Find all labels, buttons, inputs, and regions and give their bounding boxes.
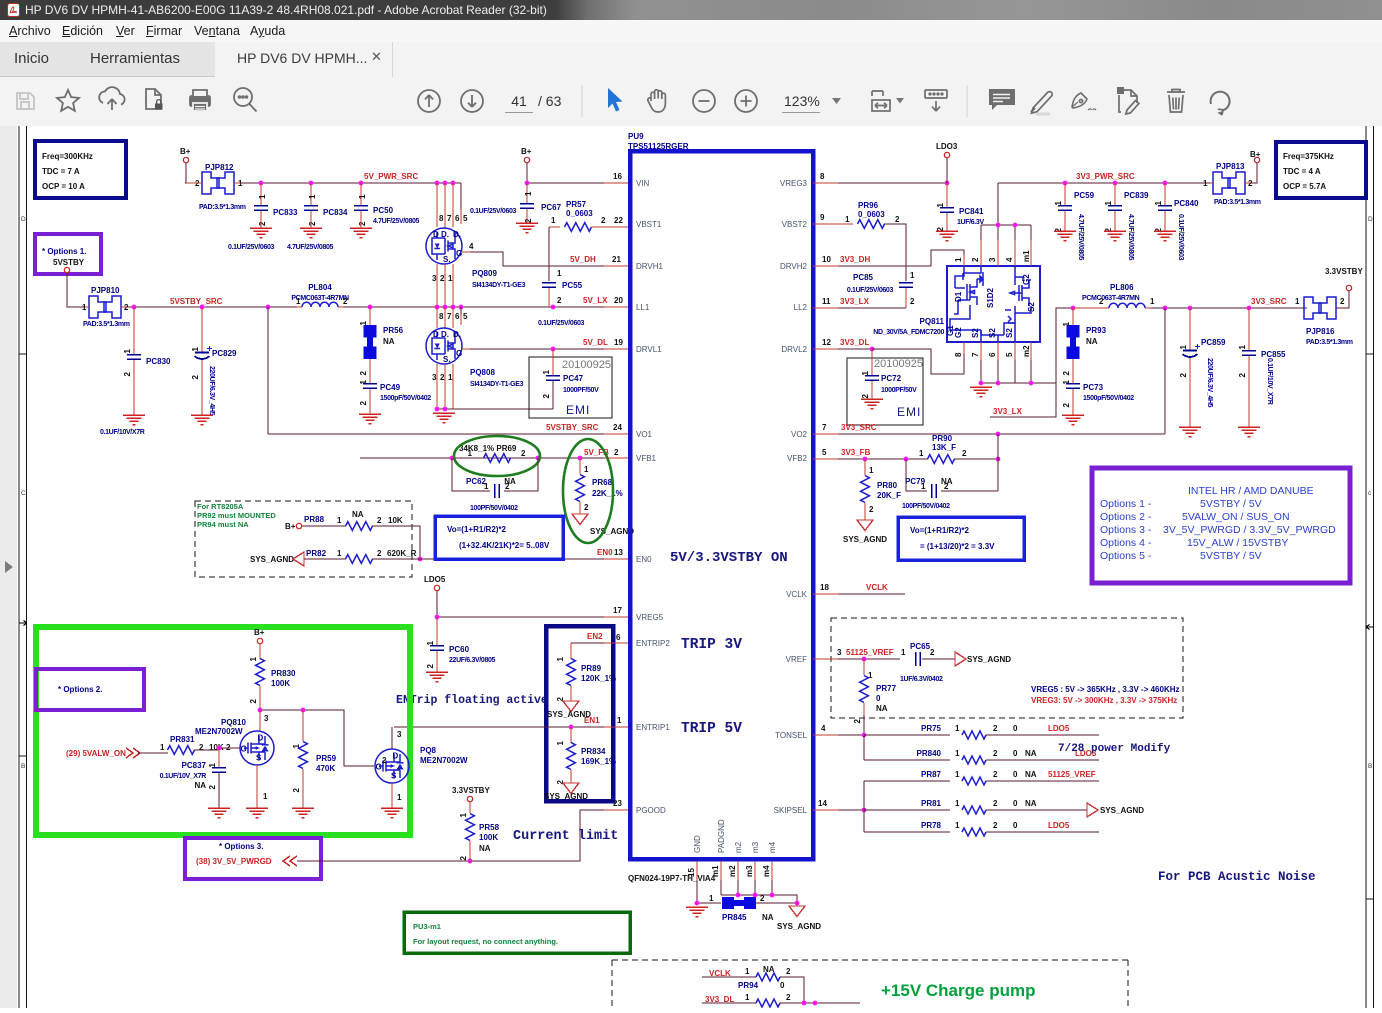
svg-text:5: 5	[463, 312, 468, 321]
svg-text:LL1: LL1	[636, 303, 650, 312]
svg-text:PL806: PL806	[1110, 283, 1134, 292]
note box PU3-m1	[404, 912, 630, 953]
svg-text:169K_1%: 169K_1%	[581, 757, 616, 766]
svg-text:DRVH1: DRVH1	[636, 262, 664, 271]
green ellipse around PR69	[454, 436, 540, 476]
svg-text:2: 2	[861, 393, 870, 398]
svg-text:1: 1	[359, 320, 368, 325]
svg-text:PC841: PC841	[959, 207, 984, 216]
jumper PJP810	[89, 296, 121, 318]
svg-text:Options 1 -: Options 1 -	[1100, 498, 1152, 510]
svg-text:S2: S2	[988, 328, 997, 338]
wire VREG3 to LDO3	[813, 182, 838, 184]
capacitor PC62 loop	[452, 458, 538, 491]
left panel strip	[0, 126, 17, 1008]
svg-text:2: 2	[542, 393, 551, 398]
svg-text:PQ811: PQ811	[920, 317, 945, 326]
capacitor PC49	[363, 384, 377, 388]
svg-text:1: 1	[845, 215, 850, 224]
svg-text:1: 1	[919, 449, 924, 458]
svg-text:TONSEL: TONSEL	[775, 731, 807, 740]
svg-text:4.7UF/25V/0805: 4.7UF/25V/0805	[287, 244, 334, 251]
wire PQ808 source rail	[437, 408, 553, 410]
svg-text:PR88: PR88	[304, 515, 325, 524]
jumper PJP816	[1304, 297, 1336, 319]
svg-text:1: 1	[910, 271, 915, 280]
svg-text:51125_VREF: 51125_VREF	[846, 648, 894, 657]
svg-text:1: 1	[901, 648, 906, 657]
capacitor PC79 loop	[906, 459, 998, 491]
capacitor PC830	[133, 307, 135, 354]
svg-text:3V3_PWR_SRC: 3V3_PWR_SRC	[1076, 172, 1135, 181]
svg-text:1: 1	[936, 202, 945, 207]
resistor PR830	[259, 644, 261, 659]
svg-text:PR57: PR57	[566, 200, 587, 209]
svg-text:PC49: PC49	[380, 383, 401, 392]
svg-text:PAD:3.5*1.3mm: PAD:3.5*1.3mm	[1306, 339, 1353, 346]
svg-text:3.3VSTBY: 3.3VSTBY	[452, 786, 490, 795]
capacitor PC67	[526, 183, 528, 203]
capacitor PC47	[552, 349, 554, 375]
svg-text:3V3_LX: 3V3_LX	[993, 407, 1023, 416]
svg-text:0.1UF/25V/0603: 0.1UF/25V/0603	[847, 287, 894, 294]
svg-text:0: 0	[1013, 724, 1018, 733]
ground PC859	[1179, 427, 1201, 437]
svg-text:m4: m4	[762, 865, 771, 877]
wire ENTRIP1 EN1	[394, 726, 604, 728]
svg-text:2: 2	[601, 216, 606, 225]
svg-text:16: 16	[613, 172, 622, 181]
svg-text:TPS51125RGER: TPS51125RGER	[628, 142, 689, 151]
svg-text:B+: B+	[521, 147, 532, 156]
svg-text:VO1: VO1	[636, 430, 653, 439]
transistor PQ808	[426, 328, 462, 364]
svg-text:0: 0	[1013, 770, 1018, 779]
svg-text:1: 1	[551, 216, 556, 225]
transistor PQ809	[426, 228, 462, 264]
svg-text:1: 1	[556, 740, 565, 745]
capacitor PC73	[1066, 384, 1080, 388]
svg-text:TRIP 5V: TRIP 5V	[681, 721, 742, 737]
wire PR830 node to PQ8 gate	[260, 710, 374, 766]
resistor PR81	[864, 809, 950, 811]
svg-text:PC59: PC59	[1074, 191, 1095, 200]
resistor PR78	[864, 831, 950, 833]
capacitor PC839	[1114, 183, 1116, 205]
svg-text:20K_F: 20K_F	[877, 491, 901, 500]
wire VO1 riser	[267, 307, 269, 434]
svg-text:22: 22	[614, 216, 623, 225]
svg-text:470K: 470K	[316, 764, 335, 773]
svg-text:G2: G2	[954, 327, 963, 338]
svg-text:10K: 10K	[388, 516, 403, 525]
ground PC834	[300, 228, 322, 238]
svg-text:9: 9	[820, 213, 825, 222]
svg-text:5: 5	[463, 214, 468, 223]
wire VBST2 to PC85	[884, 224, 906, 281]
svg-text:m2: m2	[734, 841, 743, 853]
svg-text:PC67: PC67	[541, 203, 562, 212]
svg-text:4: 4	[821, 724, 826, 733]
svg-text:VFB2: VFB2	[787, 454, 808, 463]
wire DRVL2 3V3_DL	[813, 348, 838, 350]
svg-text:0_0603: 0_0603	[858, 210, 885, 219]
svg-text:PR840: PR840	[917, 749, 942, 758]
capacitor PC60	[436, 617, 438, 645]
svg-text:1: 1	[296, 297, 301, 306]
svg-text:SYS_AGND: SYS_AGND	[590, 527, 634, 536]
IC bottom pin wires	[697, 861, 772, 880]
svg-text:PC72: PC72	[881, 374, 902, 383]
svg-text:+15V Charge pump: +15V Charge pump	[881, 981, 1035, 1000]
svg-text:PR56: PR56	[383, 326, 404, 335]
svg-text:2: 2	[426, 663, 435, 668]
PQ811 bottom pins	[964, 342, 1031, 360]
svg-text:220UF/6.3V_4H5: 220UF/6.3V_4H5	[208, 366, 215, 416]
svg-text:1: 1	[709, 894, 714, 903]
svg-text:PJP816: PJP816	[1306, 327, 1335, 336]
svg-text:2: 2	[760, 894, 765, 903]
svg-text:LDO5: LDO5	[424, 575, 446, 584]
ground SYS_AGND PR68	[572, 514, 588, 525]
svg-text:PQ809: PQ809	[472, 269, 497, 278]
svg-text:Options 3 -: Options 3 -	[1100, 524, 1152, 536]
svg-text:m1: m1	[1022, 250, 1031, 262]
svg-text:DRVL2: DRVL2	[781, 345, 807, 354]
svg-text:1: 1	[1295, 297, 1300, 306]
svg-text:2: 2	[308, 221, 317, 226]
svg-text:2: 2	[382, 756, 387, 765]
svg-text:VO2: VO2	[791, 430, 808, 439]
svg-text:17: 17	[613, 606, 622, 615]
wire VO2 riser	[1164, 308, 1166, 434]
svg-text:3: 3	[432, 373, 437, 382]
svg-text:4.7UF/25V/0805: 4.7UF/25V/0805	[373, 218, 420, 225]
svg-text:123%: 123%	[784, 93, 820, 109]
node B+ terminal right / wire	[1250, 163, 1257, 183]
svg-text:20100925: 20100925	[562, 359, 611, 371]
svg-text:PR77: PR77	[876, 684, 897, 693]
svg-text:7: 7	[971, 352, 980, 357]
svg-text:1: 1	[249, 656, 258, 661]
svg-text:20: 20	[614, 296, 623, 305]
svg-text:1: 1	[484, 482, 489, 491]
wire PR831 to PQ810 gate	[194, 748, 240, 750]
svg-text:3V3_LX: 3V3_LX	[840, 297, 870, 306]
svg-text:5V_DH: 5V_DH	[570, 255, 596, 264]
ground PC839	[1104, 231, 1126, 241]
svg-text:1: 1	[337, 549, 342, 558]
svg-text:1: 1	[955, 749, 960, 758]
wire SKIPSEL branch vertical	[863, 781, 865, 832]
svg-text:0: 0	[1013, 749, 1018, 758]
ground SYS_AGND PR834	[563, 783, 579, 794]
svg-text:120K_1%: 120K_1%	[581, 674, 616, 683]
svg-text:4.7UF/25V/0805: 4.7UF/25V/0805	[1077, 214, 1084, 261]
wire 3V_5V_PWRGD to PGOOD	[297, 810, 604, 861]
svg-text:PR845: PR845	[722, 913, 747, 922]
ground PC67	[516, 223, 538, 233]
svg-text:ME2N7002W: ME2N7002W	[420, 756, 468, 765]
node junctions on 5VSTBY_SRC	[132, 305, 137, 310]
svg-text:NA: NA	[1086, 337, 1098, 346]
svg-text:PJP813: PJP813	[1216, 162, 1245, 171]
svg-text:* Options 1.: * Options 1.	[42, 247, 86, 256]
resistor PR93 (NA)	[1072, 308, 1074, 325]
svg-text:PGOOD: PGOOD	[636, 806, 666, 815]
svg-text:8: 8	[954, 352, 963, 357]
ground GND pin	[686, 907, 708, 917]
wire DRVL1 / 5V_DL	[462, 348, 628, 350]
svg-text:1: 1	[556, 656, 565, 661]
svg-text:3.3VSTBY: 3.3VSTBY	[1325, 267, 1363, 276]
resistor PR834	[570, 727, 572, 743]
EMI box PC47	[529, 357, 612, 418]
note box Freq=300KHz	[35, 141, 126, 198]
svg-text:0: 0	[780, 981, 785, 990]
svg-text:EN0: EN0	[636, 555, 652, 564]
svg-text:PC830: PC830	[146, 357, 171, 366]
capacitor PC840	[1164, 183, 1166, 205]
svg-text:620K_R: 620K_R	[387, 549, 417, 558]
svg-text:5V/3.3VSTBY ON: 5V/3.3VSTBY ON	[670, 550, 788, 566]
svg-text:D: D	[1368, 216, 1373, 223]
svg-text:100K: 100K	[479, 833, 498, 842]
svg-text:2: 2	[993, 724, 998, 733]
svg-text:19: 19	[614, 338, 623, 347]
svg-text:VCLK: VCLK	[866, 583, 888, 592]
svg-text:2: 2	[853, 718, 862, 723]
svg-text:GND: GND	[693, 835, 702, 853]
svg-text:1500pF/50V/0402: 1500pF/50V/0402	[1083, 395, 1134, 402]
svg-text:5V_PWR_SRC: 5V_PWR_SRC	[364, 172, 418, 181]
svg-text:1: 1	[1150, 297, 1155, 306]
note dashed box VREF	[831, 618, 1183, 718]
svg-text:SI4134DY-T1-GE3: SI4134DY-T1-GE3	[472, 282, 526, 289]
svg-text:100PF/50V/0402: 100PF/50V/0402	[902, 503, 950, 510]
svg-text:5VSTBY_SRC: 5VSTBY_SRC	[170, 297, 223, 306]
svg-text:PR93: PR93	[1086, 326, 1107, 335]
svg-text:1: 1	[954, 257, 963, 262]
wire LL2 3V3_LX	[813, 307, 838, 309]
svg-text:1: 1	[160, 743, 165, 752]
svg-text:PR94 must NA: PR94 must NA	[197, 520, 249, 529]
wire VO1 5VSTBY_SRC	[268, 433, 604, 435]
resistor PR87	[864, 780, 950, 782]
svg-text:0: 0	[1013, 799, 1018, 808]
svg-text:3V3_SRC: 3V3_SRC	[1251, 297, 1287, 306]
transistor PQ809 pins 8 7 6 5	[437, 183, 461, 228]
svg-text:PC50: PC50	[373, 206, 394, 215]
svg-text:1: 1	[955, 821, 960, 830]
svg-text:Current limit: Current limit	[513, 829, 618, 844]
svg-text:1: 1	[308, 194, 317, 199]
svg-text:PC833: PC833	[273, 208, 298, 217]
svg-text:2: 2	[1099, 297, 1104, 306]
ground SYS_AGND PR80	[857, 520, 873, 531]
svg-text:* Options 2.: * Options 2.	[58, 685, 102, 694]
capacitor PC855	[1248, 308, 1250, 350]
svg-text:m4: m4	[768, 841, 777, 853]
svg-text:PC60: PC60	[449, 645, 470, 654]
capacitor PC50	[360, 183, 362, 205]
transistor PQ809 pins 3 2 1	[437, 264, 453, 307]
svg-text:2: 2	[993, 749, 998, 758]
svg-text:2: 2	[1238, 372, 1247, 377]
svg-text:1: 1	[1054, 200, 1063, 205]
svg-text:7: 7	[447, 214, 452, 223]
svg-text:PCMC063T-4R7MN: PCMC063T-4R7MN	[1082, 295, 1140, 302]
ground PC73	[1062, 415, 1084, 425]
wire ENTRIP2 EN2	[571, 642, 604, 644]
svg-text:PR89: PR89	[581, 664, 602, 673]
svg-text:2: 2	[440, 373, 445, 382]
ground PQ811 sources	[970, 387, 992, 397]
svg-text:LDO5: LDO5	[1048, 821, 1070, 830]
svg-text:2: 2	[377, 516, 382, 525]
svg-text:7: 7	[447, 312, 452, 321]
svg-text:4: 4	[469, 242, 474, 251]
ground PQ808	[433, 413, 455, 423]
ground PC72	[861, 399, 883, 409]
svg-text:2: 2	[292, 787, 301, 792]
svg-text:B+: B+	[254, 628, 265, 637]
svg-text:2: 2	[1062, 370, 1071, 375]
svg-text:2: 2	[993, 799, 998, 808]
svg-text:1: 1	[557, 269, 562, 278]
svg-text:PL804: PL804	[308, 283, 332, 292]
svg-text:24: 24	[613, 423, 622, 432]
svg-text:PC834: PC834	[323, 208, 348, 217]
svg-text:INTEL HR / AMD DANUBE: INTEL HR / AMD DANUBE	[1188, 485, 1314, 497]
svg-text:LDO5: LDO5	[1048, 724, 1070, 733]
svg-text:1: 1	[468, 449, 473, 458]
svg-text:(38) 3V_5V_PWRGD: (38) 3V_5V_PWRGD	[196, 857, 272, 866]
svg-text:PR58: PR58	[479, 823, 500, 832]
svg-text:2: 2	[208, 784, 217, 789]
ground PR59	[292, 808, 314, 818]
svg-text:2: 2	[786, 993, 791, 1002]
svg-text:G2: G2	[1022, 274, 1031, 285]
svg-text:3: 3	[397, 730, 402, 739]
svg-text:NA: NA	[762, 913, 774, 922]
svg-text:VREG3: VREG3	[780, 179, 808, 188]
note box Options 1	[35, 234, 101, 274]
resistor PR96	[813, 223, 853, 225]
svg-text:PAD:3.5*1.3mm: PAD:3.5*1.3mm	[1214, 199, 1261, 206]
wire EN0	[372, 558, 604, 560]
transistor PQ810	[240, 731, 274, 765]
svg-text:1: 1	[1179, 344, 1188, 349]
svg-text:1: 1	[397, 793, 402, 802]
svg-text:1: 1	[448, 274, 453, 283]
svg-text:13K_F: 13K_F	[932, 443, 956, 452]
capacitor PC55	[542, 283, 556, 287]
svg-text:S1D2: S1D2	[986, 287, 995, 308]
wire 5VSTBY to PJP810	[67, 273, 85, 307]
svg-text:5VALW_ON / SUS_ON: 5VALW_ON / SUS_ON	[1182, 511, 1290, 523]
svg-text:VREG5: VREG5	[636, 613, 664, 622]
svg-text:5V_DL: 5V_DL	[583, 338, 608, 347]
svg-text:1: 1	[617, 716, 622, 725]
transistor PQ808 pins 8 7 6 5	[437, 307, 461, 328]
wire 5VSTBY_SRC rail	[127, 306, 628, 308]
resistor PR840	[864, 759, 950, 761]
svg-text:15V_ALW / 15VSTBY: 15V_ALW / 15VSTBY	[1187, 537, 1288, 549]
jumper PJP813	[1213, 172, 1245, 194]
svg-text:1: 1	[459, 812, 468, 817]
svg-text:5VSTBY: 5VSTBY	[53, 258, 85, 267]
svg-text:/ 63: / 63	[538, 93, 562, 109]
svg-text:0.1UF/10V_X7R: 0.1UF/10V_X7R	[1266, 358, 1273, 405]
svg-text:= (1+13/20)*2 = 3.3V: = (1+13/20)*2 = 3.3V	[920, 542, 995, 551]
svg-text:C: C	[21, 490, 26, 497]
svg-text:PR80: PR80	[877, 481, 898, 490]
ground PC830	[123, 415, 145, 425]
svg-text:3V3_FB: 3V3_FB	[841, 448, 871, 457]
wire VREF 51125_VREF	[813, 658, 838, 660]
EMI box PC72	[847, 358, 923, 425]
wire LL1 pin stub	[604, 306, 628, 308]
svg-text:0.1UF/10V_X7R: 0.1UF/10V_X7R	[160, 773, 207, 780]
svg-text:OCP = 10 A: OCP = 10 A	[42, 182, 85, 191]
svg-text:3V3_DL: 3V3_DL	[840, 338, 869, 347]
svg-text:NA: NA	[352, 510, 364, 519]
svg-text:2: 2	[614, 448, 619, 457]
svg-text:VREG5 : 5V -> 365KHz , 3.3V ->: VREG5 : 5V -> 365KHz , 3.3V -> 460KHz	[1031, 685, 1180, 694]
svg-text:1: 1	[258, 194, 267, 199]
svg-text:Freq=300KHz: Freq=300KHz	[42, 152, 93, 161]
wire VIN net	[527, 163, 604, 183]
capacitor PC829 (polarized)	[201, 307, 203, 352]
svg-text:PR68: PR68	[592, 478, 613, 487]
svg-text:1: 1	[955, 770, 960, 779]
svg-text:PADGND: PADGND	[717, 819, 726, 853]
svg-text:13: 13	[614, 548, 623, 557]
svg-text:SYS_AGND: SYS_AGND	[777, 922, 821, 931]
svg-text:Vo=(1+R1/R2)*2: Vo=(1+R1/R2)*2	[910, 526, 970, 535]
svg-text:DRVL1: DRVL1	[636, 345, 662, 354]
wire PQ811 gate rail top	[981, 183, 1031, 225]
svg-text:B: B	[21, 763, 25, 770]
svg-text:VBST2: VBST2	[782, 220, 808, 229]
svg-text:PC840: PC840	[1174, 199, 1199, 208]
svg-text:18: 18	[820, 583, 829, 592]
svg-text:PC65: PC65	[910, 642, 931, 651]
svg-text:EMI: EMI	[566, 403, 590, 417]
note box Vo 3.3V formula	[898, 517, 1024, 560]
svg-text:0.1UF/25V/0603: 0.1UF/25V/0603	[1177, 214, 1184, 261]
ground SYS_AGND PR81	[1087, 803, 1098, 817]
svg-text:For RT8205A: For RT8205A	[197, 502, 244, 511]
svg-text:7/28 power Modify: 7/28 power Modify	[1058, 743, 1171, 755]
svg-text:For layout request, no connect: For layout request, no connect anything.	[413, 937, 558, 946]
svg-text:2: 2	[1179, 372, 1188, 377]
ground PC841	[936, 231, 958, 241]
svg-text:TDC = 7 A: TDC = 7 A	[42, 167, 80, 176]
svg-text:22K_1%: 22K_1%	[592, 489, 623, 498]
svg-text:m1: m1	[711, 865, 720, 877]
svg-text:100K: 100K	[271, 679, 290, 688]
svg-text:1: 1	[448, 373, 453, 382]
svg-text:2: 2	[505, 482, 510, 491]
svg-text:SI4134DY-T1-GE3: SI4134DY-T1-GE3	[470, 381, 524, 388]
svg-text:1: 1	[1238, 344, 1247, 349]
svg-text:PR78: PR78	[921, 821, 942, 830]
svg-text:5: 5	[1005, 352, 1014, 357]
svg-text:1: 1	[208, 762, 217, 767]
svg-text:6: 6	[616, 633, 621, 642]
